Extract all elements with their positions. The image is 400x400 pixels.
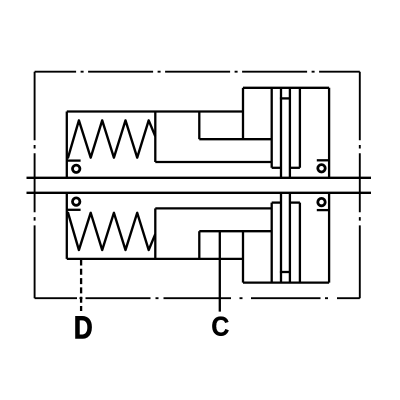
upper valve: spring chamber left wall [66, 112, 68, 178]
lower valve: body top segment B [290, 201, 300, 203]
label D [76, 316, 92, 338]
lower valve: plate 4 [299, 203, 301, 283]
lower valve: right drain tick [317, 209, 330, 211]
lower valve: body right edge [328, 193, 330, 283]
upper valve: notch left wall [198, 112, 200, 140]
lower valve: plate 3 [289, 193, 291, 283]
lower valve: plate 2 [280, 193, 282, 283]
lower valve: spring [68, 212, 156, 250]
enclosure dash-dot border top [35, 71, 360, 73]
upper valve: plate 3 [289, 88, 291, 178]
lower valve: spring chamber bottom edge [67, 258, 243, 260]
upper valve: spring seat wall [154, 112, 156, 163]
upper valve: left drain tick [67, 159, 81, 161]
lower valve: right drain orifice circle [318, 198, 325, 205]
main line P upper [27, 177, 372, 179]
node C leader [219, 231, 221, 311]
lower valve: notch left wall [198, 231, 200, 259]
lower valve: left drain tick [67, 209, 81, 211]
upper valve: body top edge [243, 87, 329, 89]
lower valve: plate 1 [271, 203, 273, 283]
lower valve: body top segment A [272, 201, 281, 203]
enclosure dash-dot border left [34, 72, 36, 299]
node D dashed leader [80, 260, 82, 312]
lower valve: spring chamber left wall [66, 193, 68, 259]
upper valve: spring [68, 120, 156, 158]
upper valve: right drain tick [317, 159, 330, 161]
upper valve: spring chamber top edge [67, 110, 243, 112]
upper valve: plate bridge [280, 97, 291, 99]
main line P lower [27, 192, 372, 194]
upper valve: notch bottom line [199, 138, 271, 140]
lower valve: passage top line [155, 207, 271, 209]
upper valve: plate 1 [271, 88, 273, 168]
upper valve: plate 2 [280, 88, 282, 178]
upper valve: passage bottom line [155, 161, 271, 163]
enclosure dash-dot border bottom [35, 297, 360, 299]
lower valve: left drain orifice circle [73, 198, 80, 205]
lower valve: notch top line [199, 230, 271, 232]
lower valve: body left edge [242, 231, 244, 282]
lower valve: spring seat wall [154, 208, 156, 259]
enclosure dash-dot border right [359, 72, 361, 299]
upper valve: body right edge [328, 88, 330, 178]
lower valve: body bottom edge [243, 281, 329, 283]
label C [212, 317, 228, 336]
upper valve: left drain orifice circle [73, 165, 80, 172]
upper valve: plate 4 [299, 88, 301, 168]
upper valve: body bottom segment A [272, 167, 281, 169]
lower valve: plate bridge [280, 271, 291, 273]
upper valve: body bottom segment B [290, 167, 300, 169]
upper valve: body left edge [242, 88, 244, 139]
upper valve: right drain orifice circle [318, 165, 325, 172]
